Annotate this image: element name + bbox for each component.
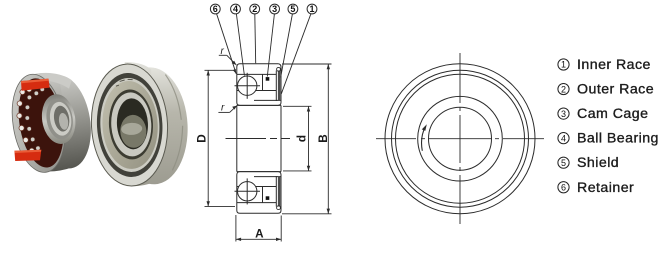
dim B	[282, 63, 332, 65]
left bearing red shield bar top	[21, 79, 50, 91]
rotation arrow	[422, 127, 426, 151]
left bearing bore inner highlight	[58, 112, 70, 130]
lower cage verticals	[262, 187, 264, 203]
legend row 2	[558, 82, 654, 98]
left bearing bore ring 3	[48, 100, 74, 137]
lower cam (black square)	[266, 196, 270, 200]
left bearing bridge between face and side	[29, 70, 73, 173]
dim D	[205, 69, 235, 71]
leader 2	[254, 14, 257, 63]
svg-text:A: A	[255, 228, 264, 241]
dim d	[283, 105, 312, 107]
upper ball	[238, 76, 257, 95]
upper cage verticals	[262, 74, 264, 90]
callout 2	[250, 4, 260, 14]
inner race right face	[280, 105, 282, 171]
legend row 1	[558, 57, 651, 73]
front view outer race inner circle	[396, 74, 525, 203]
left bearing red shield bar bottom	[14, 150, 41, 161]
upper cage top line	[237, 73, 276, 75]
legend row 3	[558, 106, 649, 122]
svg-text:6: 6	[561, 182, 566, 192]
legend row 5	[558, 155, 619, 171]
lower section outer race outline	[237, 172, 281, 214]
front view chamfer circle	[392, 70, 529, 207]
right bearing face outer rim	[88, 62, 170, 188]
dim labels	[196, 134, 331, 240]
right bearing bore far wall	[119, 114, 147, 148]
leader 1	[281, 14, 311, 94]
right bearing cylinder side body	[114, 66, 191, 187]
right bearing shield annulus	[100, 80, 160, 171]
svg-text:1: 1	[309, 4, 314, 14]
right bearing bridge between face and side	[125, 61, 157, 187]
lower cage bottom line	[237, 202, 276, 204]
svg-text:6: 6	[213, 4, 218, 14]
upper bore line	[237, 104, 281, 106]
right bearing shield inner dark ring	[107, 88, 155, 160]
svg-text:4: 4	[233, 4, 238, 14]
lower inner-race shoulder line	[254, 176, 281, 178]
legend row 6	[558, 180, 634, 196]
leader 5	[281, 14, 293, 78]
front view bore circle	[429, 107, 492, 170]
svg-text:D: D	[196, 134, 209, 142]
right bearing thin bright ring	[98, 76, 162, 173]
dim A	[235, 215, 237, 242]
upper shield bar	[278, 71, 280, 102]
leader 4	[236, 14, 244, 76]
svg-text:2: 2	[252, 4, 257, 14]
front view horizontal centerline	[376, 138, 544, 140]
callout 4	[231, 4, 241, 14]
front view vertical centerline	[459, 53, 461, 224]
leader 3	[267, 14, 274, 77]
r labels	[218, 55, 237, 112]
callout leader lines	[217, 14, 311, 94]
lower shield curl	[277, 206, 281, 210]
callout 5	[288, 4, 298, 14]
upper section outer race outline	[237, 64, 281, 106]
left bearing bore hole	[52, 105, 71, 133]
svg-text:d: d	[296, 135, 309, 142]
right bearing inner race bright ring	[110, 91, 153, 157]
svg-text:2: 2	[561, 84, 566, 94]
front view outer circle	[385, 64, 535, 214]
leader 6	[217, 14, 237, 74]
dimensions	[205, 64, 332, 242]
svg-text:1: 1	[561, 60, 566, 70]
right bearing side streaks	[165, 74, 185, 171]
legend row 4	[558, 131, 659, 147]
left bearing side top highlight	[28, 68, 73, 94]
left bearing bore ring 2	[44, 97, 76, 142]
svg-text:Inner Race: Inner Race	[577, 57, 651, 73]
upper inner-race shoulder line	[254, 99, 281, 101]
svg-text:Shield: Shield	[577, 155, 619, 171]
svg-text:Outer Race: Outer Race	[577, 82, 654, 98]
svg-text:Ball Bearing: Ball Bearing	[577, 131, 659, 147]
lower shield bar	[278, 176, 280, 207]
upper cam (black square)	[266, 77, 270, 81]
svg-text:4: 4	[561, 133, 566, 143]
centerline	[226, 138, 291, 140]
lower bore line	[237, 171, 281, 173]
callout 1	[307, 4, 317, 14]
svg-text:5: 5	[561, 158, 566, 168]
left bearing outer ball row	[13, 86, 42, 154]
right bearing bore wall highlight	[121, 122, 143, 135]
callout 6	[210, 4, 220, 14]
lower ball	[238, 182, 257, 201]
svg-text:5: 5	[290, 4, 295, 14]
r top leader	[219, 54, 227, 56]
svg-text:B: B	[317, 134, 330, 142]
lower cage top line	[237, 186, 276, 188]
svg-text:3: 3	[561, 109, 566, 119]
left bearing cage annulus	[13, 75, 70, 171]
inner race left face	[236, 105, 238, 171]
svg-text:Retainer: Retainer	[577, 180, 634, 196]
front view shield inner circle	[418, 96, 503, 181]
left bearing bore metallic ring	[38, 92, 78, 147]
left bearing face outer ring	[6, 70, 72, 176]
right bearing dark groove ring	[94, 71, 165, 178]
svg-text:3: 3	[272, 4, 277, 14]
right bearing shield lettering marks	[116, 79, 133, 86]
svg-text:Cam Cage: Cam Cage	[577, 106, 648, 122]
callout 3	[270, 4, 280, 14]
upper cage bottom line	[237, 90, 276, 92]
right bearing bore	[116, 98, 150, 151]
upper shield curl	[277, 67, 281, 71]
r bottom leader	[218, 111, 229, 113]
svg-text:r: r	[221, 103, 225, 114]
left bearing cylinder side body	[31, 71, 97, 172]
left bearing inner ball row	[21, 87, 54, 152]
callout circles	[210, 4, 316, 14]
